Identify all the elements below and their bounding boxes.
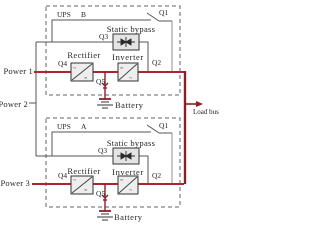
svg-text:Static bypass: Static bypass xyxy=(107,24,156,34)
svg-text:Rectifier: Rectifier xyxy=(67,50,100,60)
svg-text:A: A xyxy=(81,122,87,131)
svg-text:UPS: UPS xyxy=(57,122,71,131)
svg-text:Q4: Q4 xyxy=(58,171,67,180)
svg-text:Rectifier: Rectifier xyxy=(67,166,100,176)
svg-text:Inverter: Inverter xyxy=(112,52,144,62)
svg-text:Q2: Q2 xyxy=(152,171,161,180)
svg-text:Q1: Q1 xyxy=(159,8,168,17)
svg-text:Power 1: Power 1 xyxy=(4,66,34,76)
svg-text:Q5: Q5 xyxy=(96,189,105,198)
svg-text:Q1: Q1 xyxy=(159,121,168,130)
svg-text:Q2: Q2 xyxy=(152,58,161,67)
svg-text:Power 2: Power 2 xyxy=(0,99,28,109)
svg-text:Battery: Battery xyxy=(115,100,144,110)
svg-text:UPS: UPS xyxy=(57,10,71,19)
svg-text:Battery: Battery xyxy=(114,212,143,222)
svg-text:Static bypass: Static bypass xyxy=(107,138,156,148)
svg-text:Load bus: Load bus xyxy=(193,108,219,116)
svg-text:Q5: Q5 xyxy=(96,77,105,86)
svg-text:B: B xyxy=(81,10,86,19)
svg-text:Inverter: Inverter xyxy=(112,167,144,177)
svg-text:Q4: Q4 xyxy=(58,59,67,68)
svg-text:Power 3: Power 3 xyxy=(1,178,31,188)
